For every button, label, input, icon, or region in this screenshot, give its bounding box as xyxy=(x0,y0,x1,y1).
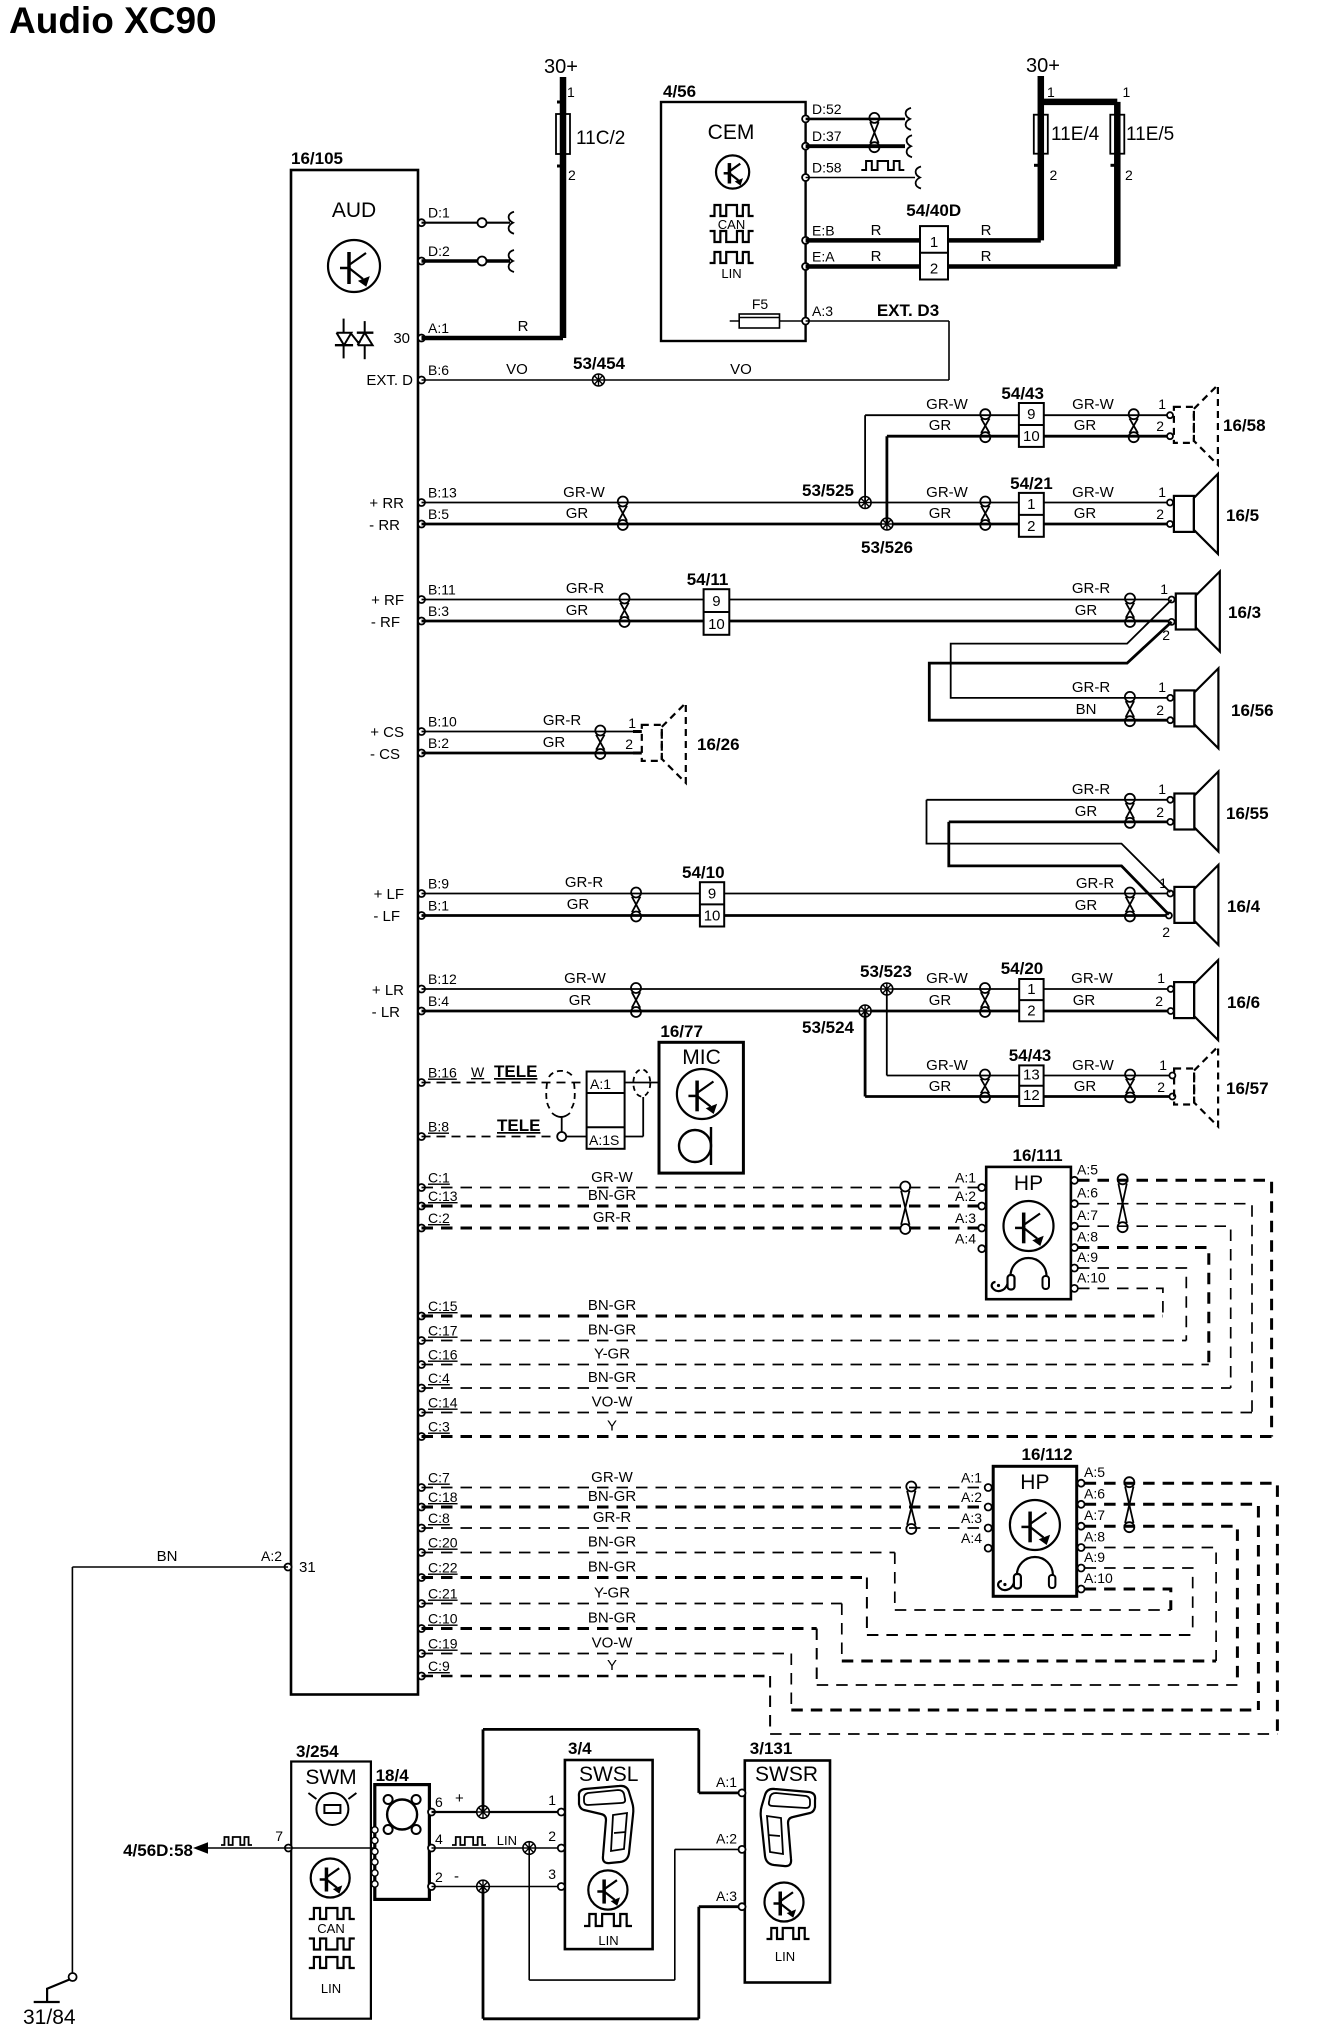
svg-text:D:58: D:58 xyxy=(812,160,842,176)
svg-text:GR-W: GR-W xyxy=(1072,1057,1114,1074)
wire B:6 EXT.D VO to CEM A:3 xyxy=(422,321,950,380)
wire B:11 +RF GR-R xyxy=(371,580,704,609)
wire B:12 +LR GR-W xyxy=(372,970,1019,999)
splice 53/525 xyxy=(802,481,871,509)
CEM pin D:37 xyxy=(802,128,842,150)
connector 54/43 (left rear) xyxy=(1009,1046,1052,1106)
wire B:8 TELE (dashed) xyxy=(422,1116,556,1137)
svg-text:A:1: A:1 xyxy=(428,320,449,336)
AUD pin C:18 xyxy=(418,1489,458,1511)
18/4 DIN connector symbol xyxy=(384,1795,421,1834)
svg-text:GR: GR xyxy=(569,992,592,1009)
svg-text:54/10: 54/10 xyxy=(682,863,725,882)
svg-text:2: 2 xyxy=(1156,506,1164,522)
svg-text:BN: BN xyxy=(157,1548,178,1565)
svg-text:GR: GR xyxy=(929,417,952,434)
svg-text:1: 1 xyxy=(1047,84,1055,100)
AUD pin B:9 xyxy=(418,876,449,898)
AUD pin A:2 (left side) xyxy=(261,1548,292,1571)
svg-text:GR: GR xyxy=(929,992,952,1009)
svg-text:C:15: C:15 xyxy=(428,1298,458,1314)
16/111 pin A:7 xyxy=(1071,1207,1098,1230)
svg-text:GR-R: GR-R xyxy=(593,1509,631,1526)
svg-text:BN-GR: BN-GR xyxy=(588,1488,637,1505)
steering wheel module 3/254 SWM box xyxy=(291,1742,371,2019)
pin stubs 16/26 xyxy=(633,732,642,754)
svg-text:D:37: D:37 xyxy=(812,128,842,144)
svg-text:A:4: A:4 xyxy=(961,1530,982,1546)
svg-text:11E/5: 11E/5 xyxy=(1126,124,1174,145)
wire 16/111 loop xyxy=(1078,1180,1272,1436)
svg-text:C:2: C:2 xyxy=(428,1210,450,1226)
AUD pin C:3 xyxy=(418,1419,450,1441)
svg-text:18/4: 18/4 xyxy=(376,1766,410,1785)
16/111 pin A:3 xyxy=(955,1210,985,1232)
AUD pin C:4 xyxy=(418,1370,450,1392)
svg-text:16/3: 16/3 xyxy=(1228,603,1261,622)
svg-text:13: 13 xyxy=(1023,1067,1040,1084)
svg-text:2: 2 xyxy=(1157,1079,1165,1095)
junction circle B:8 xyxy=(557,1132,566,1141)
CEM CAN symbol xyxy=(710,205,754,242)
svg-text:2: 2 xyxy=(1156,702,1164,718)
CEM LIN symbol xyxy=(710,252,754,281)
wire C:8 GR-R (dashed) xyxy=(422,1509,989,1528)
svg-text:- LF: - LF xyxy=(373,908,400,925)
wire C:7 GR-W (dashed) xyxy=(422,1469,989,1488)
svg-text:C:8: C:8 xyxy=(428,1510,450,1526)
svg-text:2: 2 xyxy=(1155,993,1163,1009)
splice on + wire xyxy=(477,1806,490,1819)
svg-text:VO-W: VO-W xyxy=(592,1394,634,1411)
speaker 16/56 xyxy=(1174,668,1273,748)
16/112 pin A:9 xyxy=(1078,1549,1106,1572)
wire E:B R xyxy=(806,222,1041,240)
pulse label D:58 xyxy=(861,161,904,170)
connector 54/11 xyxy=(687,570,730,635)
svg-text:C:1: C:1 xyxy=(428,1170,450,1186)
svg-text:B:5: B:5 xyxy=(428,506,449,522)
twisted pair 16/58 rows mid xyxy=(980,409,990,442)
SWSR pin A:1 xyxy=(716,1774,746,1796)
wire C:20 BN-GR (dashed) xyxy=(422,1534,1171,1611)
svg-text:53/454: 53/454 xyxy=(573,354,626,373)
AUD pin C:16 xyxy=(418,1347,458,1369)
twisted pair 16/57 right xyxy=(1125,1070,1135,1103)
splice 53/524 xyxy=(802,1005,871,1037)
AUD pin C:13 xyxy=(418,1188,458,1210)
svg-text:3/254: 3/254 xyxy=(296,1742,339,1761)
svg-text:3/4: 3/4 xyxy=(568,1739,592,1758)
svg-text:BN-GR: BN-GR xyxy=(588,1534,637,1551)
svg-text:MIC: MIC xyxy=(682,1046,721,1069)
svg-text:1: 1 xyxy=(1158,396,1166,412)
wire 30+ bus to fuses 11E/4 11E/5 xyxy=(1038,76,1117,267)
svg-text:+ RR: + RR xyxy=(369,495,404,512)
wire 54/20 to 16/6 GR-W xyxy=(1044,970,1171,989)
svg-text:A:9: A:9 xyxy=(1084,1549,1105,1565)
svg-text:GR: GR xyxy=(566,602,589,619)
svg-text:-: - xyxy=(454,1868,459,1885)
svg-text:B:6: B:6 xyxy=(428,362,449,378)
wire C:18 BN-GR (dashed) xyxy=(422,1488,989,1507)
svg-text:16/4: 16/4 xyxy=(1227,897,1261,916)
svg-text:1: 1 xyxy=(1158,484,1166,500)
pin labels fuses xyxy=(1034,84,1133,183)
svg-text:C:9: C:9 xyxy=(428,1658,450,1674)
wire 16/111 loop xyxy=(1078,1268,1186,1341)
svg-text:2: 2 xyxy=(435,1869,443,1885)
svg-text:54/43: 54/43 xyxy=(1001,384,1044,403)
svg-text:C:22: C:22 xyxy=(428,1560,458,1576)
wire + riser to SWSR A:1 xyxy=(483,1729,742,1812)
AUD pin C:15 xyxy=(418,1298,458,1320)
svg-text:GR: GR xyxy=(929,505,952,522)
svg-text:1: 1 xyxy=(1027,981,1035,998)
wire 53/524 riser to 16/57 GR xyxy=(865,1011,1019,1097)
svg-text:GR-R: GR-R xyxy=(1072,781,1110,798)
wire C:22 BN-GR (dashed) xyxy=(422,1559,1193,1636)
pin 2 16/58 xyxy=(1167,433,1173,439)
svg-text:R: R xyxy=(981,248,992,265)
AUD pin B:13 xyxy=(418,485,457,507)
pin 1 16/58 xyxy=(1167,412,1173,418)
wire 16/112 loop xyxy=(1085,1483,1278,1734)
svg-text:- RF: - RF xyxy=(371,614,400,631)
AUD pin C:17 xyxy=(418,1323,458,1345)
16/112 pin A:10 xyxy=(1078,1570,1113,1593)
AUD pin B:5 xyxy=(418,506,449,528)
svg-text:16/58: 16/58 xyxy=(1223,416,1266,435)
svg-text:2: 2 xyxy=(1027,1002,1035,1019)
wire 16/111 loop xyxy=(1078,1226,1231,1388)
twisted pair 16/56 xyxy=(1125,692,1135,726)
svg-text:GR: GR xyxy=(1073,992,1096,1009)
16/112 pin A:5 xyxy=(1078,1464,1106,1487)
svg-text:4: 4 xyxy=(435,1831,443,1847)
wire C:19 VO-W (dashed) xyxy=(422,1635,1259,1711)
svg-text:C:14: C:14 xyxy=(428,1395,458,1411)
16/111 pin A:8 xyxy=(1071,1229,1098,1252)
pin 2 16/6 xyxy=(1168,1008,1174,1014)
svg-text:1: 1 xyxy=(1157,970,1165,986)
AUD pin A:1 xyxy=(418,320,449,342)
SWSL pin 2 xyxy=(548,1828,565,1852)
wire B:4 -LR GR xyxy=(372,992,1020,1021)
wire LIN under SWSL to SWSR A:2 xyxy=(529,1848,742,1980)
svg-text:CAN: CAN xyxy=(718,217,745,232)
AUD pin B:12 xyxy=(418,971,457,993)
wire 16/111 loop xyxy=(1078,1248,1209,1365)
svg-text:16/111: 16/111 xyxy=(1013,1146,1063,1165)
MIC microphone symbol xyxy=(679,1127,711,1165)
svg-text:2: 2 xyxy=(1156,804,1164,820)
svg-text:53/523: 53/523 xyxy=(860,962,912,981)
16/112 pin A:3 xyxy=(961,1510,992,1532)
svg-text:GR-W: GR-W xyxy=(564,970,606,987)
svg-text:2: 2 xyxy=(1156,418,1164,434)
svg-text:R: R xyxy=(518,318,529,335)
break symbol D:37 xyxy=(907,135,912,157)
svg-text:B:12: B:12 xyxy=(428,971,457,987)
CEM pin D:52 xyxy=(802,101,842,123)
svg-text:C:17: C:17 xyxy=(428,1323,458,1339)
AUD pin B:8 xyxy=(418,1119,449,1141)
svg-text:GR-R: GR-R xyxy=(1076,875,1114,892)
svg-text:1: 1 xyxy=(1159,1057,1167,1073)
svg-text:2: 2 xyxy=(625,736,633,752)
svg-text:BN-GR: BN-GR xyxy=(588,1322,637,1339)
svg-text:A:7: A:7 xyxy=(1077,1207,1098,1223)
twisted pair LR mid xyxy=(980,983,990,1017)
wire D:58 stub xyxy=(806,177,915,179)
svg-text:2: 2 xyxy=(548,1828,556,1844)
svg-text:GR-W: GR-W xyxy=(1072,484,1114,501)
svg-text:A:2: A:2 xyxy=(961,1489,982,1505)
svg-text:53/524: 53/524 xyxy=(802,1018,855,1037)
twisted pair RR xyxy=(618,497,628,531)
svg-text:10: 10 xyxy=(1023,428,1040,445)
svg-text:GR: GR xyxy=(1074,505,1097,522)
pin 2 16/4 xyxy=(1166,913,1172,919)
AUD pin C:8 xyxy=(418,1510,450,1532)
svg-text:53/526: 53/526 xyxy=(861,538,913,557)
MIC control-unit symbol xyxy=(677,1069,727,1119)
pin 2 16/55 xyxy=(1167,819,1173,825)
svg-text:A:3: A:3 xyxy=(955,1210,976,1226)
wire 53/523 riser to 16/57 GR-W xyxy=(887,989,1019,1076)
headset symbol (dashed) xyxy=(546,1071,575,1132)
microphone module 16/77 box xyxy=(659,1022,743,1173)
svg-text:16/55: 16/55 xyxy=(1226,804,1269,823)
svg-text:Y: Y xyxy=(607,1657,617,1674)
SWSR pin A:3 xyxy=(716,1888,746,1910)
break symbol D:58 xyxy=(916,167,921,189)
fuse 11E/5 xyxy=(1110,115,1174,154)
ground connector circle xyxy=(69,1973,77,1981)
svg-text:GR-R: GR-R xyxy=(1072,679,1110,696)
AUD pin B:16 xyxy=(418,1065,457,1087)
svg-text:Audio XC90: Audio XC90 xyxy=(9,0,217,41)
svg-text:54/21: 54/21 xyxy=(1010,474,1053,493)
twisted pair 16/3 xyxy=(1125,594,1135,628)
svg-text:A:1: A:1 xyxy=(590,1076,611,1092)
svg-text:30: 30 xyxy=(393,330,410,347)
svg-text:54/20: 54/20 xyxy=(1001,959,1044,978)
twisted C:1/C:13/C:2 xyxy=(900,1182,910,1235)
svg-text:+ RF: + RF xyxy=(371,592,404,609)
svg-text:1: 1 xyxy=(1158,781,1166,797)
SWSL control-unit symbol xyxy=(588,1870,627,1909)
splice on - wire xyxy=(477,1880,490,1893)
svg-text:11C/2: 11C/2 xyxy=(576,128,625,149)
SWM pin 7 xyxy=(275,1828,292,1852)
svg-text:F5: F5 xyxy=(752,296,769,312)
svg-text:54/43: 54/43 xyxy=(1009,1046,1052,1065)
wire C:13 BN-GR (dashed) xyxy=(422,1187,983,1206)
svg-text:7: 7 xyxy=(275,1828,283,1844)
AUD pin B:6 xyxy=(418,362,449,384)
wire 54/10 to 16/4 GR-R xyxy=(724,875,1170,894)
svg-text:C:19: C:19 xyxy=(428,1636,458,1652)
svg-text:- LR: - LR xyxy=(372,1004,401,1021)
16/111 pin A:10 xyxy=(1071,1269,1106,1292)
svg-text:B:3: B:3 xyxy=(428,603,449,619)
svg-text:B:2: B:2 xyxy=(428,735,449,751)
svg-text:LIN: LIN xyxy=(497,1833,517,1848)
AUD zener diodes xyxy=(335,319,374,360)
svg-text:LIN: LIN xyxy=(775,1949,795,1964)
SWSL LIN symbol xyxy=(584,1914,632,1948)
svg-text:GR: GR xyxy=(1075,602,1098,619)
svg-text:16/112: 16/112 xyxy=(1022,1445,1073,1464)
pin 1 16/57 xyxy=(1169,1073,1175,1079)
svg-text:BN-GR: BN-GR xyxy=(588,1369,637,1386)
svg-text:GR-W: GR-W xyxy=(926,484,968,501)
svg-text:+ LR: + LR xyxy=(372,982,404,999)
svg-text:+ LF: + LF xyxy=(374,886,404,903)
speaker 16/55 xyxy=(1174,772,1268,852)
svg-text:A:4: A:4 xyxy=(955,1231,976,1247)
wire + (pin6 to SWSL pin1) xyxy=(432,1811,562,1813)
break symbol D:52 xyxy=(906,108,911,130)
svg-text:D:52: D:52 xyxy=(812,101,842,117)
wire C:3 Y (dashed) xyxy=(422,1418,1272,1437)
twisted C:7/C:18/C:8 xyxy=(906,1482,916,1535)
16/111 pin A:4 xyxy=(955,1231,985,1253)
svg-text:B:11: B:11 xyxy=(428,582,456,598)
fuse 11C/2 xyxy=(556,114,625,154)
svg-text:1: 1 xyxy=(628,715,636,731)
svg-text:C:13: C:13 xyxy=(428,1188,458,1204)
svg-text:TELE: TELE xyxy=(497,1116,540,1135)
svg-text:16/26: 16/26 xyxy=(697,735,740,754)
svg-text:GR: GR xyxy=(1075,897,1098,914)
svg-text:R: R xyxy=(871,222,882,239)
svg-text:1: 1 xyxy=(930,234,938,251)
CEM pin E:B xyxy=(802,222,834,244)
SWSR control-unit symbol xyxy=(765,1883,804,1922)
wire C:2 GR-R (dashed) xyxy=(422,1209,983,1228)
AUD pin D:1 xyxy=(418,205,450,227)
16/112 pin A:4 xyxy=(961,1530,992,1552)
pin 2 16/57 xyxy=(1169,1094,1175,1100)
CEM pin A:3 xyxy=(802,303,833,325)
CEM fuse F5 xyxy=(730,296,806,328)
svg-text:1: 1 xyxy=(1027,496,1035,513)
svg-text:+: + xyxy=(455,1790,464,1807)
speaker 16/5 xyxy=(1174,474,1259,554)
wire B:13 +RR GR-W xyxy=(369,484,1018,512)
wire B:10 +CS GR-R xyxy=(370,712,636,741)
wire riser 53/526 to 16/58 xyxy=(887,417,1019,524)
svg-text:A:6: A:6 xyxy=(1084,1485,1105,1501)
svg-text:C:4: C:4 xyxy=(428,1370,450,1386)
svg-text:6: 6 xyxy=(435,1794,443,1810)
twisted pair 16/55 xyxy=(1125,794,1135,828)
svg-text:A:7: A:7 xyxy=(1084,1507,1105,1523)
svg-text:SWSL: SWSL xyxy=(579,1763,639,1786)
pin 1 16/4 xyxy=(1167,891,1173,897)
connector A:1/A:1S (TELE) xyxy=(587,1072,625,1149)
AUD pin C:10 xyxy=(418,1611,458,1633)
wire 54/11 to 16/3 GR xyxy=(729,602,1171,643)
wire 16/112 loop xyxy=(1085,1504,1259,1710)
svg-text:31/84: 31/84 xyxy=(23,2006,76,2029)
wire D:1 stub xyxy=(422,218,511,227)
svg-text:+ CS: + CS xyxy=(370,724,404,741)
twisted pair LR xyxy=(631,983,641,1017)
twisted 16/112 A:5-A:7 xyxy=(1124,1477,1134,1532)
svg-text:GR-W: GR-W xyxy=(926,396,968,413)
svg-text:4/56: 4/56 xyxy=(663,82,696,101)
svg-text:GR: GR xyxy=(1075,803,1098,820)
wire C:15 BN-GR (dashed) xyxy=(422,1297,1163,1316)
16/112 headphone symbol xyxy=(998,1557,1055,1590)
connector 54/10 xyxy=(682,863,725,927)
wire B:5 -RR GR xyxy=(369,505,1019,534)
wire D:2 stub xyxy=(422,257,511,266)
svg-text:VO: VO xyxy=(730,361,752,378)
wire 54/43 to 16/58 GR xyxy=(1044,417,1170,436)
speaker 16/6 xyxy=(1174,960,1260,1040)
pin 2 16/3 xyxy=(1169,619,1175,625)
svg-text:Y: Y xyxy=(607,1418,617,1435)
svg-text:30+: 30+ xyxy=(1026,55,1060,77)
wire C:16 Y-GR (dashed) xyxy=(422,1346,1209,1365)
svg-text:11E/4: 11E/4 xyxy=(1051,124,1100,145)
svg-text:GR-W: GR-W xyxy=(1071,970,1113,987)
svg-text:SWSR: SWSR xyxy=(755,1763,818,1786)
16/112 pin A:8 xyxy=(1078,1529,1106,1552)
svg-text:GR-R: GR-R xyxy=(1072,580,1110,597)
wire 16/112 loop xyxy=(1085,1526,1238,1685)
svg-text:EXT. D3: EXT. D3 xyxy=(877,301,939,320)
pin 1 of 11C/2 xyxy=(557,84,575,102)
18/4 edge pin scallops xyxy=(372,1827,378,1887)
svg-text:A:5: A:5 xyxy=(1077,1161,1098,1177)
svg-text:2: 2 xyxy=(930,261,938,278)
svg-text:9: 9 xyxy=(1027,406,1035,423)
svg-text:1: 1 xyxy=(1160,581,1168,597)
svg-text:1: 1 xyxy=(1123,84,1131,100)
svg-text:BN-GR: BN-GR xyxy=(588,1297,637,1314)
svg-text:E:B: E:B xyxy=(812,222,835,238)
svg-text:9: 9 xyxy=(708,885,716,902)
svg-text:10: 10 xyxy=(708,616,725,633)
svg-text:Y-GR: Y-GR xyxy=(594,1346,630,1363)
svg-text:- CS: - CS xyxy=(370,746,400,763)
AUD pin C:22 xyxy=(418,1560,458,1582)
wire 16/111 loop xyxy=(1078,1204,1252,1413)
wire A:1 to MIC xyxy=(625,1082,659,1084)
svg-text:C:16: C:16 xyxy=(428,1347,458,1363)
svg-text:16/56: 16/56 xyxy=(1231,701,1274,720)
wire 54/43 to 16/57 GR xyxy=(1044,1078,1173,1097)
16/111 control-unit symbol xyxy=(1004,1201,1054,1251)
svg-text:1: 1 xyxy=(1158,679,1166,695)
16/111 pin A:6 xyxy=(1071,1185,1098,1208)
CEM control-unit symbol xyxy=(716,155,749,188)
wire A:2 BN to ground xyxy=(72,1548,288,1974)
control module 4/56 CEM box xyxy=(661,82,806,341)
svg-text:2: 2 xyxy=(1027,518,1035,535)
svg-text:BN-GR: BN-GR xyxy=(588,1610,637,1627)
wire 54/10 to 16/4 GR xyxy=(724,897,1170,940)
speaker 16/4 xyxy=(1174,865,1260,945)
break symbol D:1 xyxy=(509,212,514,234)
wire B:1 -LF GR xyxy=(373,896,700,925)
